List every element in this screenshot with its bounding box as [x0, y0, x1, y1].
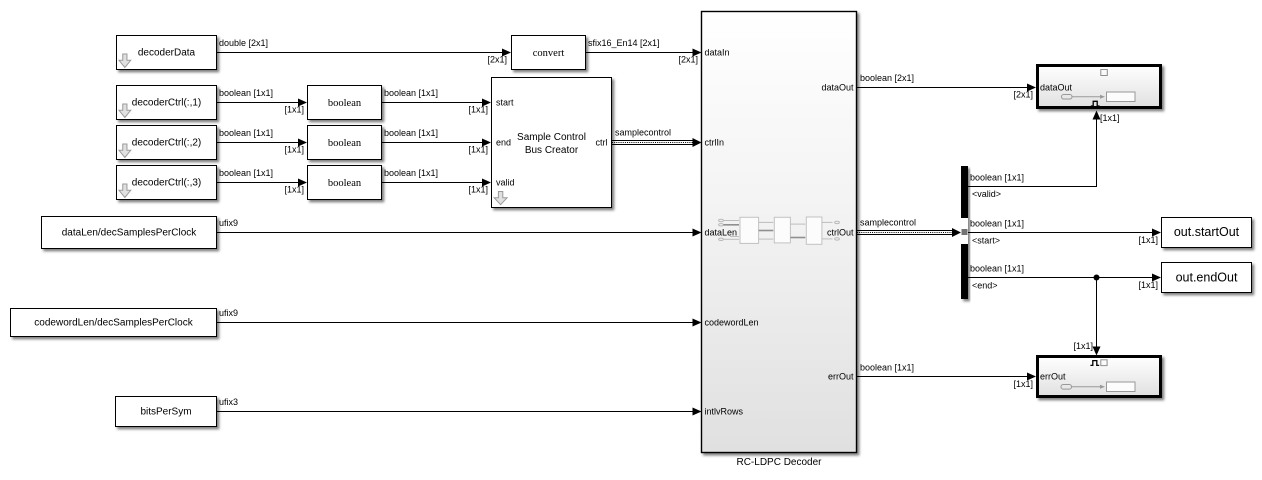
wire valid to dataOut trigger — [968, 111, 1101, 187]
svg-text:samplecontrol: samplecontrol — [615, 128, 671, 138]
wire dataLen to big block — [217, 229, 702, 237]
block out.endOut — [1162, 263, 1252, 293]
svg-text:end: end — [496, 138, 511, 148]
svg-text:ctrlIn: ctrlIn — [705, 138, 725, 148]
subsystem block errOut — [1038, 357, 1161, 397]
svg-text:boolean [1x1]: boolean [1x1] — [860, 363, 914, 373]
svg-text:boolean [1x1]: boolean [1x1] — [219, 88, 273, 98]
source block bitsPerSym — [116, 397, 217, 427]
svg-text:[1x1]: [1x1] — [468, 185, 488, 195]
block convert — [512, 36, 586, 70]
wire convert to dataIn — [586, 49, 702, 57]
svg-text:[1x1]: [1x1] — [1138, 235, 1158, 245]
svg-text:errOut: errOut — [1040, 372, 1066, 382]
wire end to out.endOut — [968, 274, 1161, 282]
svg-text:[2x1]: [2x1] — [678, 55, 698, 65]
svg-text:[2x1]: [2x1] — [487, 55, 507, 65]
svg-text:boolean [1x1]: boolean [1x1] — [384, 88, 438, 98]
svg-text:ufix9: ufix9 — [219, 218, 238, 228]
block boolean3 — [308, 166, 382, 200]
source block decoderCtrl(:,1) — [117, 86, 217, 120]
svg-text:ctrlOut: ctrlOut — [827, 228, 854, 238]
wire start to out.startOut — [968, 229, 1161, 237]
wire boolean3 to valid — [382, 179, 491, 187]
svg-text:out.endOut: out.endOut — [1176, 271, 1238, 285]
svg-text:ctrl: ctrl — [596, 138, 608, 148]
svg-text:boolean [1x1]: boolean [1x1] — [384, 168, 438, 178]
svg-text:boolean [1x1]: boolean [1x1] — [970, 264, 1024, 274]
svg-text:convert: convert — [533, 48, 565, 59]
source block decoderData — [117, 36, 217, 70]
svg-text:boolean [1x1]: boolean [1x1] — [384, 128, 438, 138]
source block dataLen/decSamplesPerClock — [42, 217, 217, 249]
wire decoderCtrl1 to boolean1 — [217, 99, 307, 107]
svg-text:boolean [1x1]: boolean [1x1] — [970, 219, 1024, 229]
svg-text:bitsPerSym: bitsPerSym — [140, 407, 191, 418]
source block decoderCtrl(:,2) — [117, 126, 217, 160]
bus wire ctrl to ctrlIn — [612, 138, 702, 147]
svg-text:errOut: errOut — [828, 372, 854, 382]
svg-text:samplecontrol: samplecontrol — [860, 218, 916, 228]
svg-text:ufix3: ufix3 — [219, 397, 238, 407]
svg-text:decoderCtrl(:,1): decoderCtrl(:,1) — [132, 98, 201, 109]
svg-text:decoderCtrl(:,3): decoderCtrl(:,3) — [132, 178, 201, 189]
wire decoderData to convert — [217, 49, 511, 57]
svg-text:RC-LDPC Decoder: RC-LDPC Decoder — [736, 457, 822, 468]
source block decoderCtrl(:,3) — [117, 166, 217, 200]
svg-text:valid: valid — [496, 178, 515, 188]
svg-text:[1x1]: [1x1] — [1100, 113, 1120, 123]
block Sample Control Bus Creator — [492, 78, 612, 208]
svg-text:<end>: <end> — [972, 281, 998, 291]
subsystem block dataOut — [1038, 66, 1161, 108]
wire boolean2 to end — [382, 139, 491, 147]
svg-text:[2x1]: [2x1] — [1013, 90, 1033, 100]
subsystem preview icon inside big block — [719, 217, 840, 244]
svg-text:sfix16_En14 [2x1]: sfix16_En14 [2x1] — [588, 38, 660, 48]
svg-text:Sample Control: Sample Control — [517, 132, 586, 143]
svg-text:decoderCtrl(:,2): decoderCtrl(:,2) — [132, 138, 201, 149]
svg-text:boolean: boolean — [328, 98, 362, 109]
svg-text:dataOut: dataOut — [1040, 83, 1073, 93]
svg-text:[1x1]: [1x1] — [1138, 280, 1158, 290]
wire bitsPerSym to big block — [217, 408, 702, 416]
svg-text:[1x1]: [1x1] — [284, 185, 304, 195]
svg-text:codewordLen: codewordLen — [705, 318, 759, 328]
wire decoderCtrl3 to boolean3 — [217, 179, 307, 187]
svg-text:dataOut: dataOut — [821, 83, 854, 93]
wire codewordLen to big block — [217, 319, 702, 327]
svg-text:[1x1]: [1x1] — [1013, 379, 1033, 389]
svg-text:double [2x1]: double [2x1] — [219, 38, 268, 48]
svg-text:dataLen/decSamplesPerClock: dataLen/decSamplesPerClock — [62, 228, 198, 239]
svg-text:intlvRows: intlvRows — [705, 407, 744, 417]
svg-text:[1x1]: [1x1] — [1073, 341, 1093, 351]
wire decoderCtrl2 to boolean2 — [217, 139, 307, 147]
wire errOut port to errOut subsystem — [857, 373, 1036, 381]
svg-text:out.startOut: out.startOut — [1174, 225, 1240, 239]
svg-text:[1x1]: [1x1] — [284, 145, 304, 155]
source block codewordLen/decSamplesPerClock — [11, 309, 217, 337]
svg-text:decoderData: decoderData — [138, 48, 196, 59]
svg-text:boolean: boolean — [328, 138, 362, 149]
block boolean1 — [308, 86, 382, 120]
svg-text:boolean [1x1]: boolean [1x1] — [970, 173, 1024, 183]
svg-text:[1x1]: [1x1] — [468, 105, 488, 115]
svg-text:boolean [1x1]: boolean [1x1] — [219, 128, 273, 138]
svg-text:start: start — [496, 98, 514, 108]
wire dataOut to dataOut subsystem — [857, 84, 1036, 92]
bus selector bar — [961, 166, 968, 299]
svg-text:boolean: boolean — [328, 178, 362, 189]
svg-text:Bus Creator: Bus Creator — [525, 145, 579, 156]
block boolean2 — [308, 126, 382, 160]
svg-text:[1x1]: [1x1] — [468, 145, 488, 155]
svg-text:[1x1]: [1x1] — [284, 105, 304, 115]
svg-text:boolean [2x1]: boolean [2x1] — [860, 73, 914, 83]
svg-text:ufix9: ufix9 — [219, 308, 238, 318]
block out.startOut — [1162, 218, 1252, 248]
big block RC-LDPC Decoder — [702, 12, 857, 453]
wire boolean1 to start — [382, 99, 491, 107]
wire end junction to errOut trigger — [1093, 278, 1101, 356]
junction on end wire — [1094, 275, 1100, 281]
svg-text:dataIn: dataIn — [705, 48, 730, 58]
bus wire ctrlOut to bus selector — [857, 228, 961, 237]
svg-text:boolean [1x1]: boolean [1x1] — [219, 168, 273, 178]
svg-text:<valid>: <valid> — [972, 189, 1001, 199]
svg-text:<start>: <start> — [972, 236, 1000, 246]
svg-text:codewordLen/decSamplesPerClock: codewordLen/decSamplesPerClock — [34, 318, 193, 329]
